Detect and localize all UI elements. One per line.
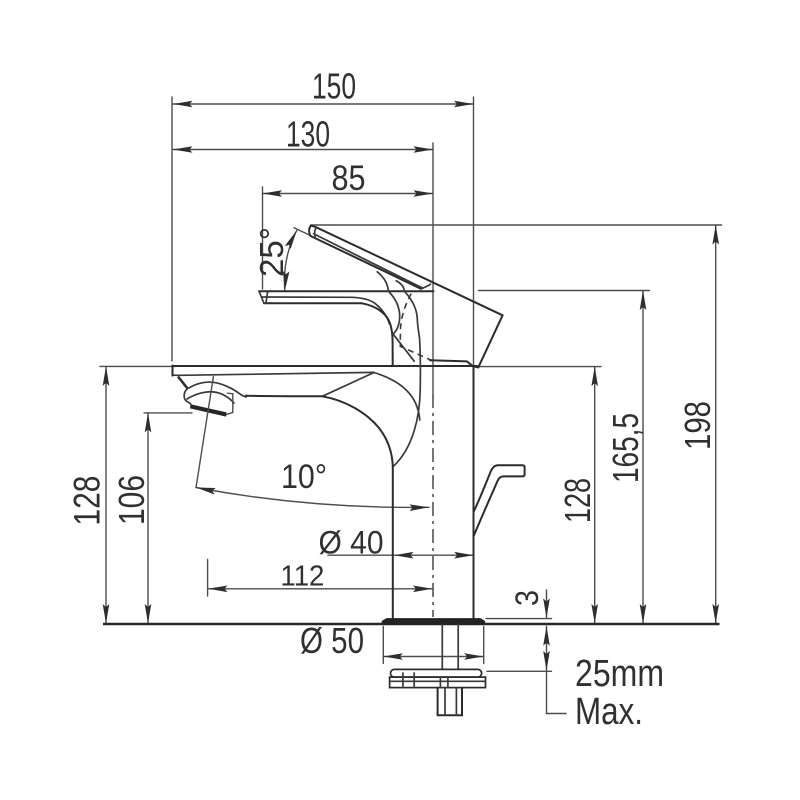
arrow 128L top <box>103 366 110 386</box>
spout top edge <box>173 365 478 367</box>
raised collar smoothing <box>421 284 431 289</box>
body outer swoop left <box>322 396 393 466</box>
extension line y=225 (198) <box>311 224 722 226</box>
arrow 128R bottom <box>591 604 598 624</box>
raised lever tip tick <box>315 227 317 236</box>
bracket tick 3 <box>439 677 441 688</box>
arrow 10deg right <box>409 504 429 511</box>
shank right edge <box>457 624 459 669</box>
extension line y=671.3 washer top right <box>487 670 552 672</box>
extension line x=207.6 (112 left) <box>207 560 209 597</box>
spout tip chamfer <box>178 377 188 389</box>
svg-text:128: 128 <box>557 478 598 523</box>
arrow 10deg left <box>195 484 215 494</box>
extension line y=413 (106) <box>144 412 192 414</box>
dimension 165,5 line <box>642 291 644 624</box>
aerator right riser <box>226 393 233 414</box>
svg-text:3: 3 <box>509 590 545 606</box>
lever bottom edge <box>264 302 362 304</box>
bracket tick 4 <box>447 677 449 688</box>
spout tip left face <box>172 366 174 376</box>
raised lever inner line <box>314 234 423 288</box>
lever top edge <box>259 290 434 292</box>
arrow 150 right <box>454 101 474 108</box>
lever tip tick <box>266 293 268 304</box>
body right edge (below ext) <box>473 366 475 619</box>
neck diagonal crease <box>393 334 414 361</box>
hidden blade edge dashed <box>400 294 434 362</box>
svg-text:10°: 10° <box>281 458 327 496</box>
svg-text:106: 106 <box>111 475 152 525</box>
arrow 128L bottom <box>103 604 110 624</box>
dimension 198 line <box>715 225 717 624</box>
svg-text:25°: 25° <box>253 227 290 277</box>
svg-text:198: 198 <box>677 401 718 450</box>
aerator cap lower arc <box>187 392 234 403</box>
arrow O50 right <box>464 653 484 660</box>
svg-text:130: 130 <box>286 114 330 155</box>
arrow O40 left <box>394 552 414 559</box>
arrow O50 left <box>383 653 403 660</box>
dimension 128 left line <box>105 366 107 623</box>
arrow 25deg upper <box>285 229 300 249</box>
aerator cap upper arc <box>189 382 246 397</box>
body inner sculpt curve <box>374 373 420 421</box>
paddle bottom edge <box>430 360 478 367</box>
dimension 150 line <box>173 103 474 105</box>
arrow 106 top <box>145 413 152 433</box>
arrow 112 left <box>208 586 228 593</box>
svg-text:Ø 40: Ø 40 <box>319 525 384 561</box>
shank left edge <box>441 624 443 669</box>
dimension Ø40 line <box>328 554 474 556</box>
crease diagonal underside <box>322 373 374 397</box>
arrow 25mm up <box>543 626 550 646</box>
spout underside <box>246 395 322 398</box>
arrow O40 right <box>454 552 474 559</box>
svg-text:128: 128 <box>67 476 108 526</box>
dimension 128 right line <box>594 367 596 624</box>
arrow 85 right <box>414 190 434 197</box>
dimension 25deg arc <box>284 230 296 290</box>
neck front S-curve <box>362 303 393 366</box>
arrow 165,5 bottom <box>640 604 647 624</box>
pivot curve right into leaf <box>393 291 420 466</box>
extension line centerline x=433 solid upper <box>432 143 434 394</box>
raised collar right curve <box>396 281 404 291</box>
dimension 130 line <box>173 149 433 151</box>
aerator mesh band <box>190 404 227 416</box>
dimension 10deg arc <box>196 488 429 508</box>
svg-text:112: 112 <box>280 561 324 593</box>
raised lever tip cap <box>309 226 316 237</box>
pivot curve left <box>389 291 400 334</box>
dimension 112 line <box>208 588 433 590</box>
lever inner crease <box>262 297 390 324</box>
extension line x=383.3 (Ø50 left) <box>382 627 384 664</box>
arrow 130 left <box>173 146 193 153</box>
bracket tick 1 <box>402 673 404 688</box>
centerline x=433 dash-dot <box>432 394 434 617</box>
paddle right edge <box>478 315 502 367</box>
10deg reference line through aerator <box>196 377 213 488</box>
extension line y=366.6 right (128 right) <box>479 366 601 368</box>
arrow 25deg lower <box>282 271 290 291</box>
svg-text:85: 85 <box>332 159 366 198</box>
raised lever top edge / paddle top <box>316 227 503 315</box>
arrow 106 bottom <box>145 604 152 624</box>
raised lever bottom edge <box>312 237 421 289</box>
arrow 128R top <box>591 367 598 387</box>
deck line <box>103 623 720 625</box>
extension line spout tip x=172 <box>171 97 173 361</box>
bracket tick 2 <box>413 673 415 688</box>
arrow 3 down <box>543 599 550 619</box>
arrow 112 right <box>413 586 433 593</box>
dimension 106 line <box>147 413 149 624</box>
hex nut outline <box>438 688 462 716</box>
lever tip left chamfer <box>259 291 264 303</box>
bracket mid line <box>390 680 486 682</box>
extension line lever tip x=262.5 <box>262 187 264 289</box>
dimension 3 and 25mm line with leader <box>547 590 567 714</box>
dimension Ø50 line <box>383 656 483 658</box>
mounting bracket <box>390 677 486 688</box>
dimension 85 line <box>263 193 434 195</box>
extension line x=483.7 (Ø50 right) <box>483 627 485 664</box>
horseshoe washer <box>391 669 482 677</box>
arrow 25mm down <box>543 651 550 671</box>
extension line y=366 left (128 left) <box>100 365 177 367</box>
handle blade <box>474 465 525 536</box>
arrow 198 bottom <box>712 604 719 624</box>
svg-text:25mm: 25mm <box>575 653 664 695</box>
hex nut inner flats <box>445 688 456 716</box>
arrow 198 top <box>712 225 719 245</box>
extension line y=618.6 flange top right <box>486 618 552 620</box>
body left column edge <box>392 466 394 618</box>
arrow 165,5 top <box>640 291 647 311</box>
extension line body right edge x=473.5 (top part) <box>473 97 475 366</box>
svg-text:Max.: Max. <box>575 691 643 733</box>
arrow 150 left <box>173 101 193 108</box>
extension line y=290.5 (165,5) <box>479 290 650 292</box>
svg-text:Ø 50: Ø 50 <box>300 620 364 661</box>
raised collar left curve <box>377 272 388 291</box>
svg-text:165,5: 165,5 <box>605 413 646 483</box>
dimension 25deg leg extension <box>294 228 312 236</box>
spout shoulder line <box>173 372 375 375</box>
arrow 85 left <box>263 190 283 197</box>
svg-text:150: 150 <box>312 66 356 107</box>
spout tip heel <box>184 389 191 405</box>
arrow 130 right <box>414 146 434 153</box>
flange plate <box>382 619 484 624</box>
